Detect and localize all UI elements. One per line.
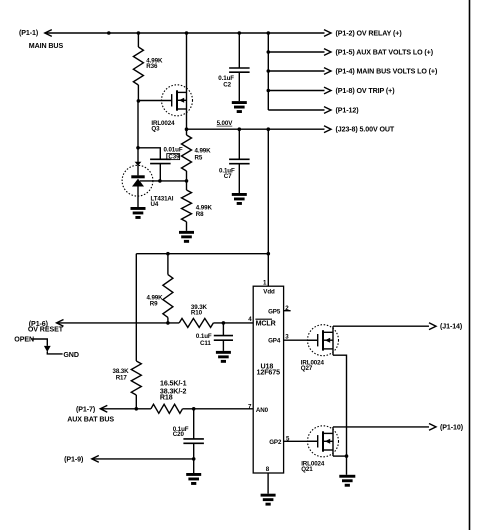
wire Q21 source: [333, 455, 347, 457]
node junction dots: [107, 31, 111, 35]
wire main bus P1-1 to P1-2: [45, 32, 325, 34]
svg-text:4.99K: 4.99K: [195, 147, 212, 154]
ground under Q21: [346, 456, 348, 475]
svg-text:R36: R36: [146, 63, 158, 70]
wire OV RESET P1-6 to MCLR: [57, 322, 254, 324]
wire GP2 to Q21 gate: [284, 440, 318, 442]
resistor R18: [151, 404, 183, 413]
resistor R9: [167, 254, 169, 275]
svg-text:C7: C7: [224, 173, 232, 180]
wire P1-4 row: [268, 70, 324, 72]
wire GP4 to Q27 gate: [284, 339, 318, 341]
wire jumper: [31, 339, 47, 346]
svg-text:8: 8: [266, 466, 270, 473]
capacitor C39: [138, 148, 160, 159]
svg-text:12F675: 12F675: [257, 369, 281, 377]
svg-text:OPEN: OPEN: [14, 335, 34, 343]
wire Q3 gate: [138, 100, 171, 102]
svg-text:R5: R5: [195, 155, 203, 162]
svg-text:GP4: GP4: [268, 338, 281, 345]
svg-text:(P1-9): (P1-9): [64, 456, 84, 464]
svg-text:4: 4: [248, 316, 252, 323]
svg-text:(P1-2) OV RELAY (+): (P1-2) OV RELAY (+): [336, 30, 403, 38]
resistor R10: [179, 318, 213, 327]
resistor R8: [182, 190, 192, 222]
svg-text:MAIN BUS: MAIN BUS: [29, 42, 64, 50]
transistor Q3 IRL0024: [162, 85, 193, 116]
node P1-1 arrow: [45, 30, 52, 37]
resistor R5: [182, 135, 192, 171]
capacitor C7: [238, 129, 240, 159]
wire P1-5 row: [268, 51, 324, 53]
svg-text:R8: R8: [196, 211, 204, 218]
svg-text:Vdd: Vdd: [263, 289, 275, 296]
svg-text:MCLR: MCLR: [256, 319, 276, 327]
wire right bus vertical: [267, 33, 269, 110]
ground under C2: [232, 101, 247, 104]
op-amp U4 LT431AI shunt reference: [122, 165, 153, 196]
wire 5.00V vertical feed: [267, 129, 269, 254]
svg-text:(J23-8) 5.00V OUT: (J23-8) 5.00V OUT: [336, 126, 395, 134]
svg-text:(P1-1): (P1-1): [19, 29, 39, 37]
ground under U18: [261, 494, 276, 497]
svg-text:R18: R18: [160, 393, 173, 401]
wire P1-12 row: [268, 109, 324, 111]
svg-text:(P1-4) MAIN BUS VOLTS LO (+): (P1-4) MAIN BUS VOLTS LO (+): [336, 68, 438, 76]
svg-text:(P1-10): (P1-10): [440, 424, 464, 432]
wire Vdd rail: [136, 253, 268, 255]
wire U4 ref to divider: [140, 180, 187, 182]
ground under C20: [193, 459, 195, 473]
svg-text:5.00V: 5.00V: [217, 120, 234, 127]
svg-text:Q27: Q27: [301, 365, 313, 372]
pin 1 Vdd: [267, 254, 269, 287]
svg-text:C2: C2: [223, 82, 231, 89]
svg-text:Q21: Q21: [301, 466, 313, 473]
wire P1-8 row: [268, 90, 324, 92]
op-amp U18 12F675: [253, 286, 283, 473]
wire Q27 drain to J1-14: [333, 325, 429, 327]
svg-text:AUX BAT BUS: AUX BAT BUS: [67, 415, 114, 423]
wire sheet border: [469, 0, 471, 530]
svg-text:(P1-12): (P1-12): [336, 107, 360, 115]
svg-text:C20: C20: [173, 431, 185, 438]
svg-text:(P1-5) AUX BAT VOLTS LO (+): (P1-5) AUX BAT VOLTS LO (+): [336, 49, 434, 57]
node P1-2 arrow: [324, 30, 331, 37]
svg-text:R9: R9: [150, 300, 158, 307]
svg-text:(J1-14): (J1-14): [440, 323, 463, 331]
svg-text:AN0: AN0: [256, 407, 269, 414]
svg-text:C39: C39: [168, 154, 180, 161]
svg-text:U4: U4: [151, 201, 159, 208]
svg-text:(P1-8) OV TRIP (+): (P1-8) OV TRIP (+): [336, 87, 396, 95]
svg-text:GP2: GP2: [269, 439, 282, 446]
capacitor C2: [238, 33, 240, 68]
capacitor C11: [222, 323, 224, 336]
resistor R36: [137, 33, 139, 47]
svg-text:3: 3: [285, 333, 289, 340]
wire Vdd rail to R17: [135, 254, 137, 361]
svg-text:(P1-7): (P1-7): [76, 406, 96, 414]
ground under C11: [216, 351, 231, 354]
pin 2 GP5: [284, 310, 291, 312]
wire AUX BAT P1-7 to AN0: [100, 408, 253, 410]
wire P1-9 ground return: [92, 458, 194, 460]
wire gate node to LT431 cathode: [137, 101, 139, 175]
resistor R17: [131, 361, 141, 395]
wire Q3 drain-source vertical: [186, 33, 188, 129]
svg-text:Q3: Q3: [151, 126, 160, 133]
ground under U4: [131, 207, 146, 210]
wire Q27 source down: [333, 355, 347, 456]
svg-text:16.5K/-1: 16.5K/-1: [160, 380, 187, 388]
transistor Q21 IRL0024: [308, 426, 339, 457]
ground under R8: [179, 231, 194, 234]
svg-text:OV RESET: OV RESET: [28, 326, 64, 334]
svg-text:C11: C11: [200, 340, 211, 347]
svg-text:GP5: GP5: [268, 308, 281, 315]
svg-text:GND: GND: [63, 351, 78, 359]
svg-text:R10: R10: [191, 309, 203, 316]
wire Q21 drain to P1-10: [333, 426, 429, 428]
ground under C7: [232, 193, 247, 196]
transistor Q27 IRL0024: [308, 325, 339, 356]
svg-text:R17: R17: [116, 374, 128, 381]
wire 5.00V rail to J23-8: [187, 128, 325, 130]
capacitor C20: [193, 409, 195, 439]
